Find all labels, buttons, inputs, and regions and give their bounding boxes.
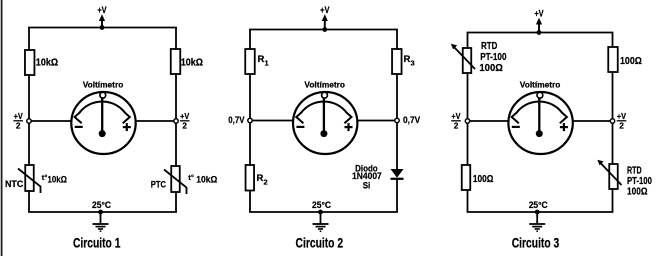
wire: circuit 2 left node to voltmeter	[250, 120, 293, 122]
wire: circuit 2 voltmeter to right node	[357, 120, 397, 122]
svg-text:2: 2	[182, 120, 187, 130]
svg-text:R: R	[404, 54, 411, 65]
label +V/2 at circuit 1 left node	[13, 111, 23, 130]
svg-text:100Ω: 100Ω	[627, 186, 648, 197]
wire: circuit 2 right branch	[396, 30, 398, 213]
resistor R lower-left 100Ω (circuit 3)	[462, 165, 471, 190]
wire: circuit 3 left branch	[467, 33, 469, 213]
wire: circuit 1 left node to voltmeter	[29, 120, 71, 122]
svg-text:100Ω: 100Ω	[473, 174, 494, 185]
+V supply circuit 1: junction dot	[100, 25, 105, 30]
voltmeter circuit 1 body circle	[71, 92, 135, 154]
resistor R1 (circuit 2)	[245, 49, 255, 74]
svg-text:0,7V: 0,7V	[228, 115, 245, 126]
voltmeter circuit 3 plus sign	[560, 123, 568, 131]
svg-text:0,7V: 0,7V	[403, 115, 421, 126]
svg-text:25°C: 25°C	[312, 200, 331, 210]
voltmeter circuit 1 needle	[101, 98, 103, 134]
wire: circuit 3 left node to voltmeter	[468, 120, 509, 122]
voltmeter circuit 3 body circle	[508, 92, 572, 154]
resistor R2 (circuit 2)	[246, 165, 255, 191]
+V supply circuit 2: arrowhead	[322, 14, 328, 21]
thermistor NTC (circuit 1)	[18, 165, 41, 193]
resistor R upper-right 100Ω (circuit 3)	[608, 47, 618, 72]
label +V/2 at circuit 3 left node	[451, 111, 461, 130]
svg-text:Si: Si	[363, 181, 371, 192]
+V supply circuit 1: arrowhead	[99, 14, 105, 21]
+V supply circuit 3: arrowhead	[536, 18, 542, 25]
svg-text:100Ω: 100Ω	[620, 56, 642, 67]
svg-text:10kΩ: 10kΩ	[36, 57, 58, 68]
+V supply circuit 1: stem wire	[101, 20, 103, 28]
wire: circuit 1 top rail	[28, 27, 177, 29]
voltmeter circuit 1 pivot dot	[99, 130, 106, 137]
svg-text:Circuito 2: Circuito 2	[296, 235, 344, 250]
voltmeter circuit 3 pivot dot	[536, 130, 543, 137]
node circuit 2 right (0,7V) (open terminal)	[395, 118, 399, 122]
label RTD PT-100 100Ω upper-left	[479, 41, 506, 74]
svg-text:100Ω: 100Ω	[479, 63, 503, 74]
voltmeter circuit 1 minus sign	[75, 126, 83, 128]
svg-text:R: R	[257, 173, 264, 184]
svg-text:1: 1	[265, 59, 269, 68]
svg-text:Voltímetro: Voltímetro	[304, 80, 345, 90]
voltmeter circuit 2 minus sign	[296, 126, 304, 128]
voltmeter circuit 2 plus sign	[345, 123, 353, 131]
svg-text:R: R	[258, 54, 265, 65]
svg-text:10kΩ: 10kΩ	[181, 57, 203, 68]
diode D1 1N4007 (circuit 2)	[391, 169, 404, 179]
ground circuit 2: stem and bars	[313, 212, 329, 231]
wire: circuit 3 voltmeter to right node	[573, 120, 613, 122]
svg-text:+V: +V	[534, 8, 544, 19]
svg-text:2: 2	[16, 120, 21, 130]
wire: circuit 2 top rail	[249, 29, 398, 31]
svg-text:Circuito 1: Circuito 1	[73, 235, 121, 250]
wire: circuit 1 voltmeter to right node	[135, 120, 176, 122]
wire: circuit 3 right branch	[612, 33, 614, 213]
svg-text:2: 2	[454, 120, 459, 130]
resistor R upper-left 10kΩ (circuit 1)	[25, 50, 35, 75]
voltmeter circuit 1 top terminal	[100, 92, 106, 98]
svg-text:PT-100: PT-100	[480, 52, 507, 63]
svg-text:RTD: RTD	[481, 41, 497, 52]
svg-text:10kΩ: 10kΩ	[48, 175, 68, 186]
+V supply circuit 2: stem wire	[324, 20, 326, 30]
page left border line	[1, 0, 3, 256]
wire: circuit 2 bottom rail	[249, 211, 398, 213]
voltmeter circuit 2 scale arc with open arrowheads	[296, 102, 351, 124]
svg-text:Circuito 3: Circuito 3	[512, 235, 560, 250]
wire: circuit 1 bottom rail	[28, 211, 177, 213]
voltmeter circuit 3 scale arc with open arrowheads	[512, 101, 567, 123]
resistor R3 (circuit 2)	[392, 49, 402, 74]
wire: circuit 2 left branch	[249, 30, 251, 213]
svg-text:t°: t°	[188, 173, 194, 182]
svg-text:25°C: 25°C	[92, 200, 111, 210]
label Diodo 1N4007 Si	[352, 163, 382, 191]
voltmeter circuit 2 body circle	[293, 92, 357, 154]
+V supply circuit 3: stem wire	[538, 24, 540, 33]
voltmeter circuit 1 scale arc with open arrowheads	[75, 102, 130, 124]
voltmeter circuit 3 top terminal	[537, 92, 543, 98]
svg-text:PT-100: PT-100	[627, 176, 652, 187]
voltmeter circuit 3 minus sign	[512, 126, 520, 128]
label +V/2 at circuit 3 right node	[617, 111, 627, 130]
voltmeter circuit 3 needle	[538, 98, 540, 134]
+V supply circuit 2: junction dot	[322, 27, 327, 32]
svg-text:PTC: PTC	[151, 180, 167, 190]
thermistor PTC (circuit 1)	[164, 166, 187, 194]
+V supply circuit 3: junction dot	[537, 30, 542, 35]
node circuit 2 left (0,7V) (open terminal)	[248, 118, 252, 122]
label R2	[257, 173, 268, 187]
label RTD PT-100 100Ω lower-right	[627, 166, 652, 198]
wire: circuit 3 top rail	[467, 32, 614, 34]
resistor R upper-right 10kΩ (circuit 1)	[171, 49, 181, 74]
svg-text:NTC: NTC	[5, 179, 24, 189]
svg-text:+V: +V	[320, 4, 330, 15]
node circuit 1 right (+V/2) (open terminal)	[174, 119, 178, 123]
node circuit 1 left (+V/2) (open terminal)	[27, 119, 31, 123]
label t° 10kΩ for NTC	[42, 173, 67, 186]
RTD variable resistor RTD PT-100 upper-left (circuit 3)	[451, 44, 475, 73]
svg-text:+V: +V	[97, 4, 107, 15]
wire: circuit 3 bottom rail	[467, 211, 614, 213]
label R3	[404, 54, 415, 68]
voltmeter circuit 2 needle	[323, 98, 325, 134]
svg-text:25°C: 25°C	[529, 200, 548, 210]
wire: circuit 1 right branch	[175, 28, 177, 213]
svg-text:3: 3	[411, 59, 415, 68]
svg-text:10kΩ: 10kΩ	[196, 175, 217, 186]
svg-text:Voltímetro: Voltímetro	[520, 80, 561, 90]
node circuit 3 right (+V/2) (open terminal)	[610, 119, 614, 123]
ground circuit 3: junction dot	[535, 210, 540, 215]
svg-text:2: 2	[619, 120, 624, 130]
voltmeter circuit 2 pivot dot	[320, 130, 327, 137]
ground circuit 2: junction dot	[318, 210, 323, 215]
wire: circuit 1 left branch	[28, 28, 30, 213]
label R1	[258, 54, 269, 68]
ground circuit 3: stem and bars	[529, 212, 545, 231]
svg-text:Voltímetro: Voltímetro	[83, 80, 124, 90]
svg-text:2: 2	[264, 178, 268, 187]
voltmeter circuit 1 plus sign	[123, 123, 131, 131]
node circuit 3 left (+V/2) (open terminal)	[465, 119, 469, 123]
label t° 10kΩ for PTC	[188, 173, 217, 186]
svg-text:RTD: RTD	[627, 166, 642, 177]
ground circuit 1: stem and bars	[93, 212, 109, 231]
voltmeter circuit 2 top terminal	[322, 92, 328, 98]
ground circuit 1: junction dot	[98, 210, 103, 215]
label +V/2 at circuit 1 right node	[180, 111, 190, 130]
RTD variable resistor RTD PT-100 lower-right (circuit 3)	[597, 160, 621, 189]
